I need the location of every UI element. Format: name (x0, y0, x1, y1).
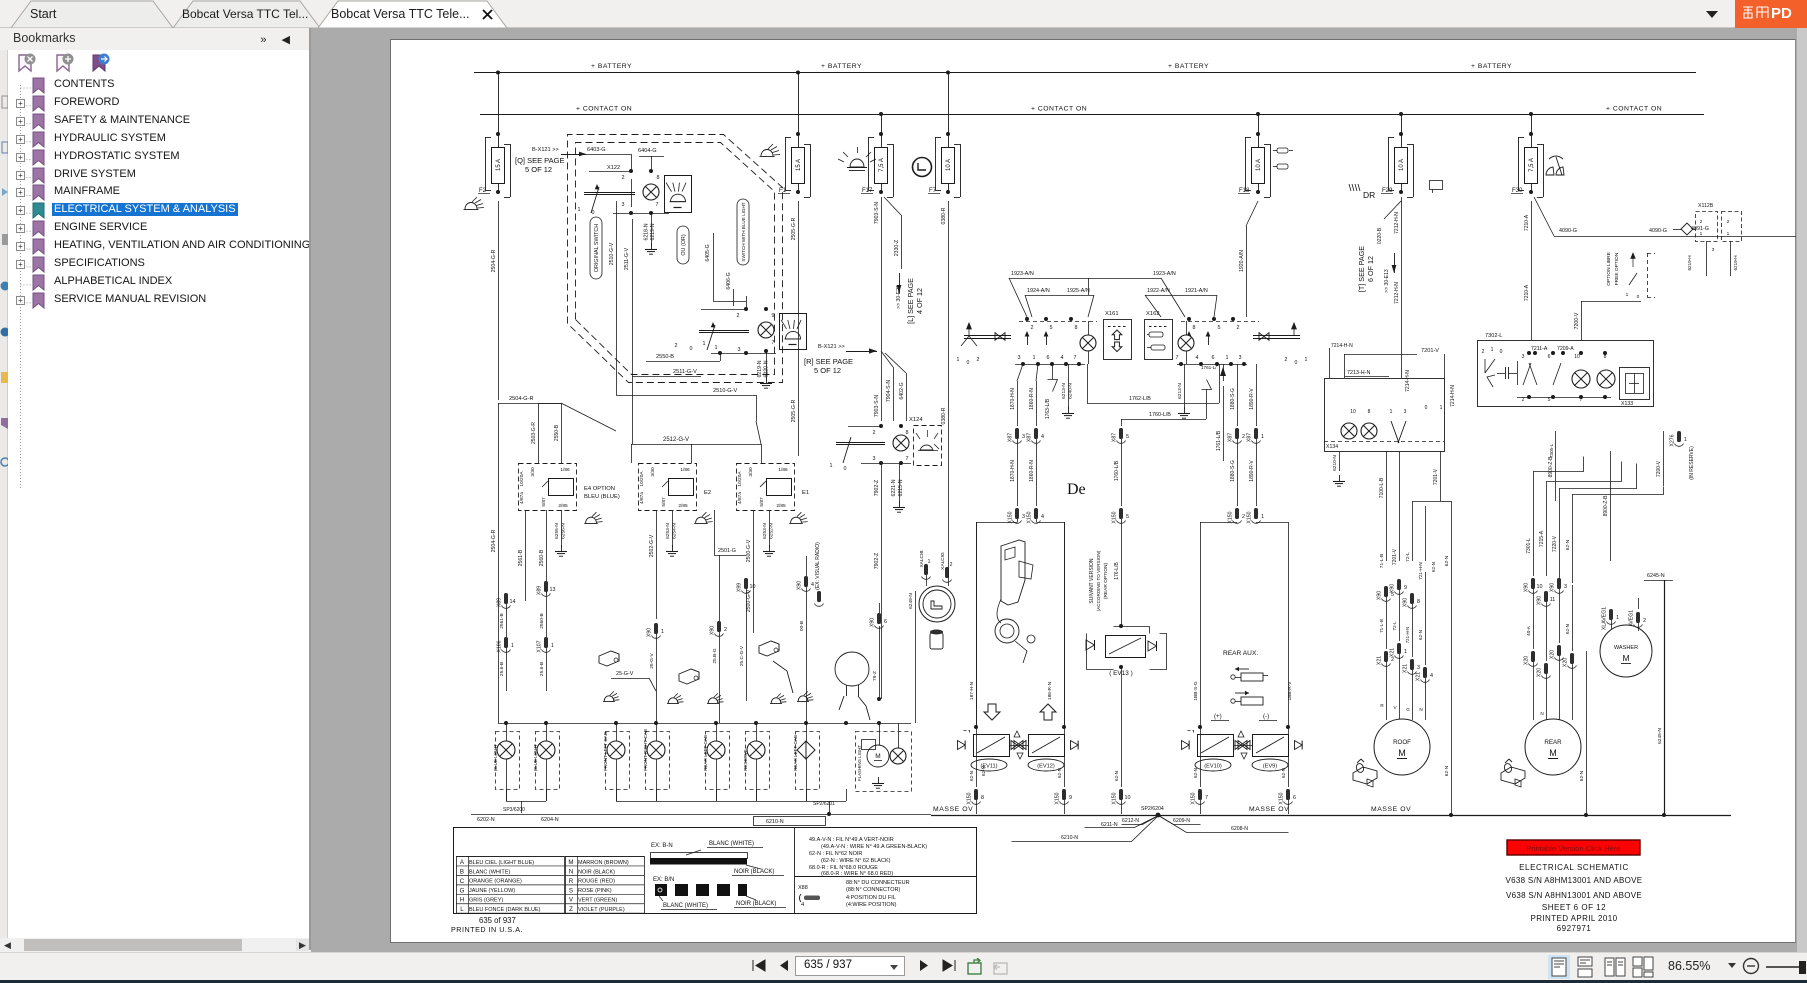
valve spools between EV11 EV12 (1009, 731, 1028, 759)
svg-text:186-R-N: 186-R-N (1047, 681, 1053, 700)
svg-text:11: 11 (1550, 597, 1556, 603)
svg-text:B: B (460, 868, 464, 875)
svg-text:4: 4 (1041, 514, 1044, 520)
svg-text:Printable Version Click Here: Printable Version Click Here (1526, 844, 1621, 853)
svg-text:X106: X106 (497, 640, 503, 652)
svg-text:V638 S/N A8HM13001 AND ABOVE: V638 S/N A8HM13001 AND ABOVE (1506, 876, 1643, 885)
svg-text:1: 1 (1700, 231, 1703, 237)
svg-text:4 OF 12: 4 OF 12 (915, 288, 924, 314)
ground 6255-N 6256-N (554, 510, 567, 556)
svg-text:3: 3 (622, 202, 625, 208)
svg-text:(IN RESERVE): (IN RESERVE) (1689, 446, 1695, 480)
switch S3 and beacon lamp X124 (830, 417, 942, 472)
svg-text:ROSE (PINK): ROSE (PINK) (578, 888, 612, 894)
svg-text:9: 9 (1404, 585, 1407, 591)
svg-text:8: 8 (1417, 599, 1420, 605)
svg-text:7: 7 (1074, 355, 1077, 361)
ground 6210-N under relay box (1332, 451, 1345, 486)
svg-text:7904-S-N: 7904-S-N (886, 380, 892, 402)
svg-text:1890-R-V: 1890-R-V (1249, 460, 1255, 482)
svg-text:1: 1 (1261, 514, 1264, 520)
svg-text:3: 3 (1404, 409, 1407, 415)
svg-text:2: 2 (737, 313, 740, 319)
svg-text:2504-G-R: 2504-G-R (491, 249, 497, 272)
svg-text:ROOF: ROOF (1393, 739, 1411, 746)
svg-text:X90: X90 (1390, 584, 1396, 593)
svg-text:6 OF 12: 6 OF 12 (1366, 256, 1375, 282)
svg-text:2561-B: 2561-B (499, 613, 505, 628)
fuse F7 10 A (928, 71, 961, 198)
svg-text:1: 1 (1033, 355, 1036, 361)
svg-text:8: 8 (1075, 325, 1078, 331)
svg-text:(88:N° CONNECTOR): (88:N° CONNECTOR) (846, 887, 901, 893)
svg-text:5/87: 5/87 (661, 497, 667, 507)
fuse F17 7,5 A (861, 112, 894, 198)
svg-text:X90: X90 (1550, 583, 1556, 592)
svg-text:NOIR (BLACK): NOIR (BLACK) (578, 869, 615, 875)
svg-text:>> 30-E13: >> 30-E13 (1384, 269, 1390, 293)
svg-text:5/87: 5/87 (541, 497, 547, 507)
svg-text:N: N (1540, 711, 1543, 716)
svg-text:7: 7 (906, 456, 909, 462)
svg-text:7100-L-B: 7100-L-B (1379, 477, 1385, 498)
fuse F2 15 A (478, 71, 511, 198)
title block text ELECTRICAL SCHEMATIC (1506, 863, 1643, 933)
svg-text:3: 3 (1022, 514, 1025, 520)
svg-text:10 A: 10 A (946, 159, 952, 171)
label [L] SEE PAGE 4 OF 12 (896, 273, 924, 324)
svg-text:4: 4 (811, 582, 814, 588)
svg-text:4/87a: 4/87a (519, 492, 525, 504)
wire 2504-G-R from F2 (491, 201, 616, 723)
svg-text:X89: X89 (497, 598, 503, 607)
svg-text:R: R (1380, 703, 1384, 708)
bus MASSE OV (931, 806, 1731, 816)
label B-X121 see page 5 of 12 [Q] (515, 147, 586, 174)
svg-text:(49.A-V-N : WIRE N° 49.A GREEN: (49.A-V-N : WIRE N° 49.A GREEN-BLACK) (821, 844, 927, 850)
svg-text:10: 10 (1350, 409, 1356, 415)
svg-text:3: 3 (1522, 354, 1525, 360)
svg-text:6215-N: 6215-N (898, 479, 904, 496)
svg-text:2505-G-R: 2505-G-R (791, 217, 797, 240)
ground 6253-N 6252-N (762, 510, 775, 556)
svg-text:2: 2 (1643, 618, 1646, 624)
svg-text:7301-L: 7301-L (1526, 538, 1532, 554)
rocker switch cluster with connector X161 (1015, 311, 1132, 366)
svg-text:NOIR (BLACK): NOIR (BLACK) (734, 869, 774, 875)
svg-text:S: S (569, 887, 573, 894)
svg-text:6: 6 (1047, 355, 1050, 361)
svg-text:VERT (GREEN): VERT (GREEN) (578, 898, 617, 904)
svg-text:6211-N: 6211-N (1101, 822, 1118, 828)
svg-text:2: 2 (724, 627, 727, 633)
svg-text:XLAVEG1: XLAVEG1 (1602, 607, 1608, 630)
accessory lighter socket (908, 546, 955, 723)
svg-text:MASSE OV: MASSE OV (933, 806, 973, 813)
svg-text:+ CONTACT ON: + CONTACT ON (1031, 106, 1087, 113)
lever valve symbol left (957, 323, 1011, 366)
svg-text:6245-N: 6245-N (1647, 573, 1665, 579)
svg-text:PRINTED APRIL 2010: PRINTED APRIL 2010 (1531, 914, 1618, 923)
svg-text:(EV10): (EV10) (1204, 763, 1222, 769)
svg-text:7: 7 (772, 340, 775, 346)
svg-text:7213-H-N: 7213-H-N (1347, 370, 1370, 376)
svg-text:OU (OR): OU (OR) (681, 234, 687, 255)
svg-text:X124: X124 (909, 417, 923, 423)
svg-text:6213-N: 6213-N (1177, 383, 1183, 399)
svg-text:X87: X87 (1008, 433, 1014, 442)
svg-text:2511-G-V: 2511-G-V (673, 369, 697, 375)
lamp BLUE LIGHT at x=505 (493, 723, 520, 801)
svg-text:X21: X21 (1403, 664, 1409, 673)
svg-text:OPTION LIBRE: OPTION LIBRE (1606, 252, 1612, 286)
svg-text:2: 2 (1031, 325, 1034, 331)
svg-text:7302-L: 7302-L (1485, 333, 1502, 339)
dashed option boundary (switch with blue light) (568, 135, 783, 383)
svg-text:7305-L: 7305-L (1549, 443, 1554, 458)
svg-text:4:POSITION DU FIL: 4:POSITION DU FIL (846, 895, 896, 901)
svg-text:X90: X90 (870, 618, 876, 627)
solenoid valve EV13 with diodes (1086, 627, 1167, 678)
svg-text:6406-G: 6406-G (726, 272, 732, 289)
svg-text:1880-S-G: 1880-S-G (1230, 388, 1236, 410)
svg-text:6927971: 6927971 (1557, 924, 1592, 933)
legend wire example solid (650, 841, 784, 876)
svg-text:1923-A/N: 1923-A/N (1153, 271, 1176, 277)
svg-text:2550-B: 2550-B (554, 424, 560, 441)
watermark De (1067, 481, 1086, 498)
horn (835, 652, 870, 720)
connector X89 pin 14 (497, 593, 516, 608)
svg-text:2/85: 2/85 (558, 503, 568, 509)
svg-text:4: 4 (1061, 355, 1064, 361)
svg-text:62-N: 62-N (1444, 765, 1450, 776)
connector X107 pin 1 (537, 592, 555, 691)
svg-text:72-L: 72-L (1405, 552, 1411, 562)
svg-text:1925-A/N: 1925-A/N (1067, 288, 1090, 294)
svg-text:0220-B: 0220-B (1377, 227, 1383, 244)
svg-text:X150: X150 (1112, 511, 1118, 523)
svg-text:X150: X150 (1008, 511, 1014, 523)
wire 62-N to X150 pin 7 (1191, 725, 1291, 814)
svg-text:9: 9 (1069, 795, 1072, 801)
svg-text:RESERVE: RESERVE (743, 749, 748, 771)
svg-text:6210-N: 6210-N (1061, 835, 1078, 841)
svg-text:BLANC (WHITE): BLANC (WHITE) (709, 841, 754, 847)
svg-text:FRONT LEFT CAB: FRONT LEFT CAB (603, 732, 608, 771)
svg-text:10/20A: 10/20A (519, 471, 525, 487)
rocker switch cluster with connector X162 (1145, 311, 1260, 366)
lamp REAR LEFT CAB at x=805 (793, 723, 820, 801)
svg-text:6: 6 (884, 619, 887, 625)
svg-text:62-N: 62-N (1444, 555, 1450, 566)
solenoid valve EV12 (1028, 735, 1078, 772)
svg-text:REAR LEFT CAB: REAR LEFT CAB (703, 735, 708, 771)
svg-text:+ CONTACT ON: + CONTACT ON (1606, 106, 1662, 113)
svg-text:X87: X87 (1247, 433, 1253, 442)
svg-text:V638 S/N A8HN13001 AND ABOVE: V638 S/N A8HN13001 AND ABOVE (1506, 891, 1642, 900)
svg-text:2: 2 (977, 357, 980, 363)
svg-text:[L] SEE PAGE: [L] SEE PAGE (906, 278, 915, 324)
svg-text:1: 1 (957, 357, 960, 363)
svg-text:SP2/6204: SP2/6204 (1141, 806, 1164, 812)
fuse F30 7,5 A (1511, 112, 1544, 198)
svg-text:721-H-N: 721-H-N (1405, 627, 1410, 644)
svg-text:4/87a: 4/87a (639, 492, 645, 504)
svg-text:3: 3 (1239, 355, 1242, 361)
svg-text:7212-H-N: 7212-H-N (1394, 282, 1400, 304)
wire 2511-G-V lower (632, 369, 701, 377)
svg-text:0: 0 (1425, 405, 1428, 411)
svg-text:1923-A/N: 1923-A/N (1011, 271, 1034, 277)
svg-text:BLUE LIGHT: BLUE LIGHT (493, 744, 498, 771)
svg-text:G: G (1406, 707, 1410, 712)
svg-text:62-N: 62-N (1281, 768, 1286, 778)
svg-text:X87: X87 (1228, 433, 1234, 442)
svg-text:F30: F30 (1512, 188, 1523, 194)
svg-text:6: 6 (1212, 355, 1215, 361)
svg-text:X150: X150 (1055, 792, 1061, 804)
wire 2510-G-V / 2511-G-V (609, 201, 633, 395)
svg-text:3: 3 (1712, 247, 1715, 253)
svg-text:+ BATTERY: + BATTERY (1168, 63, 1209, 70)
flashing light assembly (856, 723, 912, 792)
svg-text:7210-A: 7210-A (1524, 284, 1530, 301)
svg-text:62-N: 62-N (1057, 768, 1062, 778)
svg-text:X150: X150 (1112, 792, 1118, 804)
svg-text:6221-N: 6221-N (891, 479, 897, 496)
svg-text:BLANC (WHITE): BLANC (WHITE) (469, 869, 510, 875)
svg-text:REAR LEFT CAB: REAR LEFT CAB (793, 735, 798, 771)
svg-text:72-L: 72-L (1392, 621, 1397, 631)
svg-text:1870-H-N: 1870-H-N (1010, 460, 1016, 482)
ground 6213-N 6240-N (1061, 364, 1074, 418)
wire 7902-Z / 6221-N 6215-N (874, 463, 905, 699)
svg-text:7201-V: 7201-V (1433, 468, 1439, 485)
wire 4090-G 4091-G (1534, 197, 1796, 237)
svg-text:M: M (1398, 748, 1406, 758)
svg-text:Z: Z (569, 906, 573, 913)
wire 62-N below EV13 (1112, 667, 1131, 814)
svg-text:X150: X150 (1228, 511, 1234, 523)
svg-text:X89: X89 (537, 586, 543, 595)
svg-text:2: 2 (1237, 325, 1240, 331)
wire 2500-G-V (746, 510, 754, 633)
wire 2505-G-R from F1 (791, 201, 799, 456)
svg-text:X150: X150 (1279, 792, 1285, 804)
svg-text:1860-R-N: 1860-R-N (1029, 460, 1035, 482)
svg-text:2504-G-R: 2504-G-R (491, 529, 497, 552)
svg-text:7215-A: 7215-A (1539, 530, 1545, 547)
svg-text:6210-N: 6210-N (1332, 455, 1338, 471)
svg-text:V: V (1393, 705, 1397, 710)
label [T] SEE PAGE 6 OF 12 (1357, 246, 1396, 293)
svg-text:62-N: 62-N (1565, 624, 1570, 634)
svg-text:WASHER: WASHER (1614, 645, 1638, 651)
svg-text:79-Z: 79-Z (872, 671, 878, 681)
svg-text:X150: X150 (1247, 511, 1253, 523)
headlight icon at F2 (464, 197, 485, 210)
svg-text:7903-S-N: 7903-S-N (874, 395, 880, 417)
svg-text:F18: F18 (1239, 188, 1250, 194)
svg-text:X150: X150 (1191, 792, 1197, 804)
svg-text:71-L-B: 71-L-B (1379, 554, 1385, 568)
relay module E2 (639, 464, 712, 511)
svg-text:(EV9): (EV9) (1263, 763, 1277, 769)
svg-text:1: 1 (551, 643, 554, 649)
svg-text:[R] SEE PAGE: [R] SEE PAGE (804, 357, 853, 366)
page footer 635 of 937 PRINTED IN USA (451, 916, 523, 934)
svg-text:M: M (568, 859, 573, 866)
svg-text:3/30: 3/30 (748, 467, 754, 477)
svg-text:1760-L/B: 1760-L/B (1114, 460, 1120, 481)
wiper icon at F30 (1546, 156, 1564, 175)
svg-text:B-X121 >>: B-X121 >> (818, 344, 845, 350)
splice SP2/6204 with branch wires (1012, 806, 1289, 842)
svg-text:0380-R: 0380-R (941, 207, 947, 224)
wire 2330-Z branch (884, 197, 902, 269)
svg-text:MASSE OV: MASSE OV (1249, 806, 1289, 813)
fuse F29 10 A (1381, 112, 1414, 198)
svg-text:635 of 937: 635 of 937 (479, 916, 516, 925)
svg-text:2502-G-V: 2502-G-V (649, 534, 655, 557)
wire 62-N right of ROOF (1440, 501, 1453, 817)
connector X21 pins 2 1 3 4 (1377, 572, 1434, 720)
arrow down (lower) (984, 704, 1000, 720)
svg-text:3: 3 (1018, 355, 1021, 361)
svg-text:3/30: 3/30 (650, 467, 656, 477)
relay module E4 OPTION (519, 464, 620, 511)
svg-text:7200-V: 7200-V (1574, 312, 1580, 329)
wire 1761-L/B arrow (1201, 364, 1226, 461)
svg-text:6219-N: 6219-N (757, 360, 763, 377)
svg-text:1: 1 (830, 463, 833, 469)
svg-text:NOIR (BLACK): NOIR (BLACK) (736, 901, 776, 907)
svg-text:3: 3 (1417, 665, 1420, 671)
svg-text:H: H (460, 897, 464, 904)
svg-text:13: 13 (550, 587, 556, 593)
svg-text:X134: X134 (1326, 444, 1338, 450)
svg-text:N: N (1419, 707, 1422, 712)
svg-text:BLEU FONCE (DARK BLUE): BLEU FONCE (DARK BLUE) (469, 907, 541, 913)
svg-text:1/86: 1/86 (680, 467, 690, 473)
svg-text:9: 9 (772, 313, 775, 319)
svg-text:62-N: 62-N (1418, 630, 1423, 640)
svg-text:E2: E2 (704, 490, 711, 496)
svg-text:1: 1 (1226, 355, 1229, 361)
svg-text:62-N: 62-N (981, 766, 986, 776)
svg-text:10 A: 10 A (1256, 159, 1262, 171)
wire 176-L/B (1114, 519, 1123, 628)
svg-text:2561-B: 2561-B (518, 549, 524, 566)
svg-text:1870-H-N: 1870-H-N (1010, 388, 1016, 410)
svg-text:2: 2 (1285, 357, 1288, 363)
svg-text:R: R (569, 878, 574, 885)
label REAR AUX (1223, 650, 1258, 657)
svg-text:XALCIG: XALCIG (940, 552, 946, 570)
svg-text:2510-G-V: 2510-G-V (713, 388, 738, 394)
svg-text:BLANC (WHITE): BLANC (WHITE) (663, 903, 708, 909)
wire 62-N to X150 pin 8 (967, 725, 1067, 814)
svg-text:X87: X87 (1112, 433, 1118, 442)
label SUIVANT VERSION ACCORDING TO VERSION REAR OPTION (1089, 550, 1109, 611)
speaker icon A (599, 651, 619, 666)
svg-text:6253-N: 6253-N (665, 523, 671, 539)
svg-text:+ BATTERY: + BATTERY (821, 63, 862, 70)
svg-text:6210-N: 6210-N (766, 819, 784, 825)
wire labels 1923/1924/1925-A/N (1009, 271, 1217, 317)
routing lines right section (1534, 457, 1664, 495)
svg-text:7209-A: 7209-A (1557, 346, 1574, 352)
svg-text:7211-A: 7211-A (1531, 346, 1548, 352)
svg-text:FREE OPTION: FREE OPTION (1614, 252, 1620, 285)
svg-text:X150: X150 (1027, 511, 1033, 523)
svg-text:VIOLET (PURPLE): VIOLET (PURPLE) (578, 907, 625, 913)
svg-text:DR: DR (1363, 190, 1375, 200)
svg-text:10: 10 (750, 584, 756, 590)
ground 6253-N 6254-N (665, 510, 678, 556)
svg-text:2503-G-R: 2503-G-R (531, 422, 537, 444)
svg-text:(-): (-) (1263, 713, 1269, 720)
wire 62-N below rear motor (1579, 651, 1588, 817)
svg-text:2: 2 (950, 562, 953, 568)
svg-text:2511-G-V: 2511-G-V (624, 247, 630, 270)
relay box with lamps and connector X134 (1324, 343, 1456, 452)
connector X90 pin 2 (710, 621, 728, 723)
svg-text:( EV13 ): ( EV13 ) (1109, 670, 1132, 677)
svg-text:(+): (+) (1214, 713, 1222, 720)
svg-text:176-L/B: 176-L/B (1114, 562, 1120, 580)
svg-text:6218-N: 6218-N (644, 223, 650, 240)
svg-text:10: 10 (1537, 584, 1543, 590)
svg-text:2510-G-V: 2510-G-V (609, 242, 615, 265)
svg-text:2/85: 2/85 (776, 503, 786, 509)
svg-text:X90: X90 (710, 626, 716, 635)
svg-text:1763-L/B: 1763-L/B (1045, 398, 1051, 419)
svg-text:X150: X150 (967, 792, 973, 804)
svg-text:1890-R-V: 1890-R-V (1249, 388, 1255, 410)
svg-text:1: 1 (928, 559, 931, 565)
svg-text:1924-A/N: 1924-A/N (1027, 288, 1050, 294)
svg-text:BLUE LIGHT: BLUE LIGHT (533, 744, 538, 771)
svg-text:1761-L/: 1761-L/ (1201, 365, 1217, 370)
svg-text:2330-Z: 2330-Z (894, 240, 900, 256)
svg-text:6202-N: 6202-N (477, 817, 495, 823)
svg-text:6204-N: 6204-N (541, 817, 559, 823)
svg-text:X276: X276 (1670, 434, 1676, 446)
solenoid valve EV11 (958, 731, 1010, 772)
wire 1870-H-N (1008, 364, 1026, 524)
svg-text:62-N : FIL N°62 NOIR: 62-N : FIL N°62 NOIR (809, 851, 862, 857)
fuse F1 15 A (778, 71, 811, 198)
svg-text:M: M (1549, 748, 1557, 758)
svg-text:5: 5 (1126, 514, 1129, 520)
svg-text:7,5 A: 7,5 A (1529, 158, 1535, 172)
svg-text:SHEET 6 OF 12: SHEET 6 OF 12 (1542, 903, 1606, 912)
timer icon at F7 (913, 158, 932, 177)
svg-text:1: 1 (1440, 405, 1443, 411)
relay icon at F29 (1430, 181, 1443, 194)
wire 62-N to X150 pin 6 (1279, 768, 1297, 814)
svg-text:0: 0 (844, 466, 847, 472)
arrow up (raise) (1040, 704, 1056, 720)
motor REAR wiper (1525, 719, 1581, 775)
svg-text:1: 1 (578, 207, 581, 213)
wire 1763-L/B (1045, 364, 1058, 419)
lighter plug icon (930, 630, 943, 650)
lamp RESERVE at x=755 (743, 723, 770, 801)
svg-text:71-L-B: 71-L-B (1379, 619, 1384, 633)
